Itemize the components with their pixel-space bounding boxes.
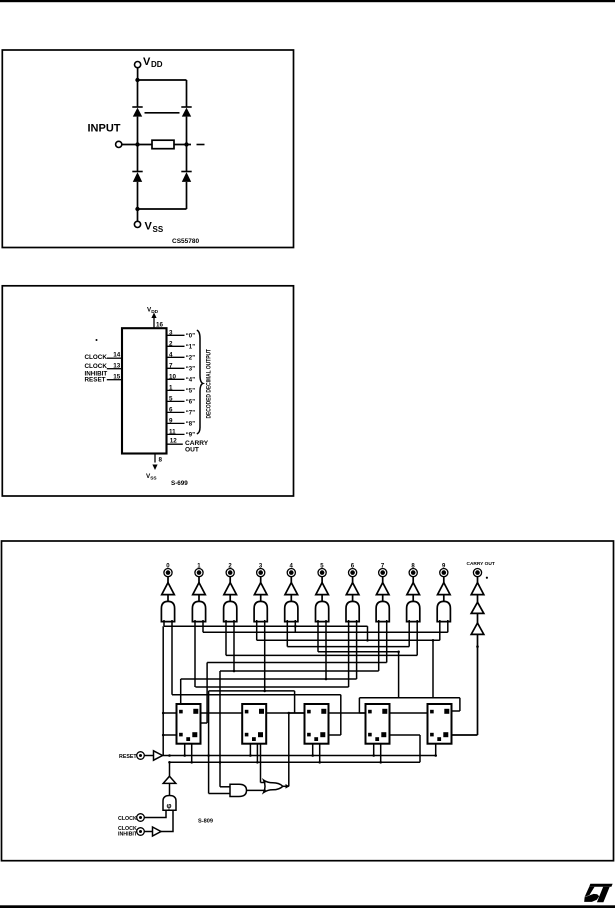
wire bus	[209, 690, 295, 692]
buffer (reset)	[154, 751, 163, 760]
svg-text:V: V	[143, 56, 151, 68]
VSS terminal	[134, 221, 140, 227]
wire ff tap	[312, 744, 314, 756]
ST logo	[584, 884, 612, 903]
clock buffer triangle up	[163, 776, 176, 783]
junction	[288, 712, 291, 715]
wire gate-input stub	[225, 620, 227, 655]
junction	[372, 754, 375, 757]
wire	[201, 722, 208, 724]
wire	[289, 712, 305, 714]
wire	[208, 691, 210, 794]
wire	[137, 209, 139, 221]
wire	[329, 734, 341, 736]
AND gate 7	[376, 601, 389, 621]
wire	[137, 145, 139, 172]
wire	[443, 595, 445, 602]
svg-text:“4”: “4”	[186, 378, 195, 384]
junction	[325, 678, 328, 681]
svg-text:OUT: OUT	[185, 447, 199, 454]
diode D3	[132, 172, 142, 182]
wire	[138, 79, 187, 81]
wire output 7	[167, 411, 185, 413]
svg-text:“3”: “3”	[186, 367, 195, 373]
wire	[107, 357, 122, 359]
wire	[198, 595, 200, 602]
output 2 terminal	[226, 563, 234, 576]
wire output 4	[167, 378, 185, 380]
wire gate-input stub	[256, 620, 258, 640]
wire ff tap	[184, 744, 186, 756]
wire	[432, 640, 434, 698]
output 3 terminal	[257, 563, 265, 576]
wire ff tap	[256, 744, 258, 763]
wire	[382, 595, 384, 602]
wire bus	[318, 651, 399, 653]
svg-text:φ: φ	[167, 803, 172, 810]
wire output 6	[167, 400, 185, 402]
junction	[379, 761, 382, 764]
carry buffer 2	[471, 602, 484, 613]
IC block U1	[122, 328, 167, 453]
OR gate O1	[264, 780, 283, 792]
junction	[184, 142, 188, 146]
svg-text:8: 8	[159, 457, 163, 464]
wire	[167, 595, 169, 602]
AND gate A1	[230, 784, 247, 796]
output 9 terminal	[440, 563, 448, 576]
AND gate 3	[254, 601, 267, 621]
VDD arrow	[153, 316, 155, 323]
output 4 terminal	[287, 563, 295, 576]
wire	[229, 577, 231, 583]
wire	[260, 595, 262, 602]
wire	[186, 80, 188, 107]
svg-text:INPUT: INPUT	[88, 122, 121, 134]
svg-text:14: 14	[113, 351, 121, 358]
wire reset bus	[163, 755, 437, 757]
CARRY OUT terminal	[467, 561, 495, 577]
INPUT terminal	[116, 141, 122, 147]
AND gate 8	[407, 601, 420, 621]
wire bus	[164, 625, 368, 627]
junction	[207, 754, 210, 757]
output 5 terminal	[318, 563, 326, 576]
flip-flop FF2	[242, 704, 266, 744]
junction	[318, 761, 321, 764]
wire gate-input stub	[202, 620, 204, 632]
wire gate-input stub	[325, 620, 327, 679]
wire bus	[257, 639, 440, 641]
svg-text:“0”: “0”	[186, 334, 195, 340]
svg-text:S-809: S-809	[198, 819, 213, 825]
junction	[135, 78, 139, 82]
wire	[169, 783, 171, 795]
wire output 8	[167, 422, 185, 424]
wire	[180, 679, 182, 704]
wire gate-input stub	[294, 620, 296, 632]
wire	[162, 626, 164, 755]
wire	[144, 810, 166, 817]
wire	[167, 443, 183, 445]
svg-text:DD: DD	[151, 309, 158, 315]
VSS arrow	[152, 465, 157, 471]
wire	[219, 671, 221, 787]
wire	[290, 577, 292, 583]
wire	[198, 577, 200, 583]
wire	[260, 744, 262, 783]
svg-text:CLOCK: CLOCK	[118, 816, 137, 822]
clock AND gate	[163, 796, 176, 811]
svg-text:RESET: RESET	[85, 377, 106, 384]
wire bus	[207, 662, 387, 664]
wire	[294, 691, 296, 713]
svg-text:V: V	[145, 221, 153, 233]
brace	[197, 330, 203, 434]
junction	[249, 754, 252, 757]
junction	[256, 761, 259, 764]
wire	[266, 712, 304, 714]
wire	[412, 595, 414, 602]
wire gate-input stub	[317, 620, 319, 652]
junction	[162, 734, 165, 737]
buffer 5	[316, 583, 329, 595]
wire	[186, 182, 188, 209]
wire bus	[287, 646, 409, 648]
output 1 terminal	[195, 563, 203, 576]
wire	[260, 577, 262, 583]
pin 8 wire	[154, 454, 156, 463]
junction	[219, 761, 222, 764]
svg-text:“5”: “5”	[186, 389, 195, 395]
wire gate-input stub	[286, 620, 288, 647]
wire	[247, 789, 266, 791]
flip-flop FF3	[305, 704, 329, 744]
wire	[206, 663, 208, 724]
wire	[122, 144, 152, 146]
svg-text:“8”: “8”	[186, 422, 195, 428]
flip-flop FF1	[177, 704, 201, 744]
wire	[167, 577, 169, 583]
junction	[162, 712, 165, 715]
wire	[367, 626, 369, 640]
AND gate 9	[437, 601, 450, 621]
wire ff tap	[319, 744, 321, 763]
wire output 0	[167, 334, 185, 336]
AND gate 1	[192, 601, 205, 621]
stray dot	[486, 577, 488, 579]
diode D2	[181, 107, 191, 117]
wire	[382, 577, 384, 583]
wire ff tap	[435, 744, 437, 756]
svg-text:“7”: “7”	[186, 411, 195, 417]
output 7 terminal	[379, 563, 387, 576]
buffer (inhibit)	[153, 827, 162, 836]
wire	[186, 117, 188, 145]
wire ff tap	[191, 744, 193, 763]
wire ff tap	[373, 744, 375, 756]
wire output 3	[167, 367, 185, 369]
wire	[359, 712, 365, 714]
wire	[459, 698, 461, 711]
svg-text:RESET: RESET	[119, 754, 137, 760]
wire bus	[220, 670, 379, 672]
junction	[476, 645, 479, 648]
wire	[352, 595, 354, 602]
junction	[366, 639, 369, 642]
wire gate-input stub	[171, 620, 173, 695]
junction	[233, 670, 236, 673]
wire gate-input stub	[264, 620, 266, 691]
wire	[137, 68, 139, 80]
wire bus	[195, 686, 348, 688]
svg-text:“9”: “9”	[186, 433, 195, 439]
wire	[452, 710, 460, 712]
wire	[321, 595, 323, 602]
wire bus	[172, 694, 341, 696]
output 6 terminal	[349, 563, 357, 576]
junction	[135, 142, 139, 146]
arrowhead	[286, 784, 290, 789]
junction	[434, 754, 437, 757]
wire gate-input stub	[386, 620, 388, 663]
diode D1	[132, 107, 142, 117]
wire ff tap	[380, 744, 382, 763]
wire	[138, 208, 187, 210]
wire	[144, 755, 153, 757]
buffer 1	[193, 583, 206, 595]
wire clock bus	[170, 735, 421, 762]
carry buffer 3	[471, 623, 484, 634]
svg-text:INHIBIT: INHIBIT	[118, 832, 138, 838]
junction	[190, 761, 193, 764]
wire	[107, 379, 122, 381]
wire output 1	[167, 345, 185, 347]
carry buffer 1	[471, 583, 484, 595]
wire gate-input stub	[194, 620, 196, 687]
wire	[137, 182, 139, 209]
svg-text:“6”: “6”	[186, 400, 195, 406]
stray mark	[96, 339, 98, 341]
wire	[321, 577, 323, 583]
wire	[144, 810, 173, 831]
wire	[358, 698, 360, 713]
wire	[390, 712, 428, 714]
buffer 4	[285, 583, 298, 595]
wire stub	[197, 144, 205, 146]
wire ff tap	[249, 744, 251, 756]
svg-text:DD: DD	[151, 60, 163, 69]
wire bus	[359, 697, 460, 699]
wire	[261, 782, 266, 784]
wire	[201, 712, 243, 714]
junction	[294, 625, 297, 628]
buffer 8	[407, 583, 420, 595]
svg-text:S-699: S-699	[171, 480, 188, 487]
wire	[186, 145, 188, 172]
svg-text:CLOCK: CLOCK	[85, 363, 108, 370]
wire	[290, 595, 292, 602]
wire	[288, 713, 290, 786]
AND gate 5	[316, 601, 329, 621]
wire bus	[203, 631, 448, 633]
wire	[137, 117, 139, 145]
wire	[163, 712, 176, 714]
wire gate-input stub	[447, 620, 449, 632]
AND gate 6	[346, 601, 359, 621]
junction	[183, 754, 186, 757]
wire gate-input stub	[416, 620, 418, 655]
wire	[452, 634, 478, 735]
wire	[398, 652, 400, 698]
wire	[329, 712, 366, 714]
wire gate-input stub	[356, 620, 358, 679]
wire gate-input stub	[163, 620, 165, 626]
wire	[153, 322, 155, 328]
resistor R	[152, 140, 174, 149]
wire	[477, 613, 479, 623]
diode D4	[181, 172, 191, 182]
output 0 terminal	[164, 563, 172, 576]
VDD terminal	[135, 62, 141, 68]
buffer 0	[162, 583, 175, 595]
wire	[209, 793, 230, 795]
wire	[340, 695, 342, 735]
svg-text:“2”: “2”	[186, 356, 195, 362]
junction	[432, 639, 435, 642]
buffer 2	[224, 583, 237, 595]
wire bus	[181, 678, 357, 680]
buffer 6	[346, 583, 359, 595]
wire output 5	[167, 389, 185, 391]
junction	[135, 207, 139, 211]
buffer 3	[254, 583, 267, 595]
flip-flop FF4	[366, 704, 390, 744]
wire	[229, 595, 231, 602]
wire	[145, 112, 180, 114]
wire	[412, 577, 414, 583]
svg-text:CLOCK: CLOCK	[85, 354, 108, 361]
junction	[397, 651, 400, 654]
wire gate-input stub	[233, 620, 235, 671]
svg-text:SS: SS	[153, 225, 164, 234]
wire gate-input stub	[439, 620, 441, 640]
buffer 7	[376, 583, 389, 595]
wire	[477, 595, 479, 603]
junction	[168, 761, 171, 764]
wire	[169, 762, 171, 776]
output 8 terminal	[409, 563, 417, 576]
wire bus	[226, 654, 417, 656]
svg-text:“1”: “1”	[186, 345, 195, 351]
svg-text:CARRY OUT: CARRY OUT	[467, 561, 495, 567]
junction	[168, 754, 171, 757]
wire	[352, 577, 354, 583]
flip-flop FF5	[428, 704, 452, 744]
svg-text:CS55780: CS55780	[172, 238, 199, 245]
wire	[220, 786, 230, 788]
wire	[174, 144, 191, 146]
AND gate 4	[285, 601, 298, 621]
svg-text:DECODED DECIMAL OUTPUT: DECODED DECIMAL OUTPUT	[206, 349, 213, 419]
AND gate 0	[161, 601, 174, 621]
AND gate 2	[224, 601, 237, 621]
wire	[137, 80, 139, 107]
wire output 2	[167, 356, 185, 358]
junction	[311, 754, 314, 757]
wire	[163, 734, 176, 736]
wire gate-input stub	[408, 620, 410, 647]
wire	[107, 368, 122, 370]
junction	[263, 690, 266, 693]
wire gate-input stub	[348, 620, 350, 687]
buffer 9	[438, 583, 451, 595]
wire output 9	[167, 433, 185, 435]
wire	[443, 577, 445, 583]
wire	[477, 577, 479, 583]
wire gate-input stub	[378, 620, 380, 671]
svg-text:SS: SS	[150, 476, 157, 482]
wire	[283, 785, 289, 787]
